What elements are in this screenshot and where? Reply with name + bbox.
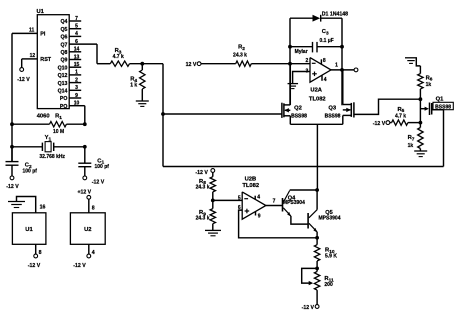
svg-text:-12 V: -12 V (6, 184, 19, 190)
svg-text:Q2: Q2 (294, 105, 302, 111)
svg-text:Q4: Q4 (60, 19, 67, 25)
svg-text:-12 V: -12 V (92, 179, 105, 185)
svg-text:Q13: Q13 (58, 81, 68, 87)
svg-text:U2B: U2B (245, 177, 257, 183)
svg-text:6: 6 (75, 39, 78, 45)
svg-text:11: 11 (29, 28, 35, 34)
svg-text:Q10: Q10 (58, 65, 68, 71)
svg-text:Q6: Q6 (60, 35, 67, 41)
svg-text:TL082: TL082 (309, 96, 326, 102)
svg-text:4: 4 (92, 250, 95, 256)
svg-text:Q9: Q9 (60, 58, 67, 64)
svg-text:100 pf: 100 pf (23, 168, 38, 174)
svg-text:PI: PI (40, 32, 46, 38)
svg-text:2: 2 (306, 58, 309, 64)
svg-text:-12 V: -12 V (73, 263, 86, 269)
svg-text:1k: 1k (408, 143, 414, 149)
svg-text:+12 V: +12 V (77, 189, 91, 195)
svg-text:14: 14 (74, 47, 80, 53)
svg-text:Mylar: Mylar (295, 49, 308, 55)
svg-text:MPS3904: MPS3904 (319, 215, 341, 221)
svg-text:-12 V: -12 V (302, 305, 315, 311)
svg-text:PO: PO (60, 96, 68, 102)
svg-text:RST: RST (40, 57, 51, 63)
svg-text:Q8: Q8 (60, 50, 67, 56)
svg-text:1: 1 (75, 70, 78, 76)
svg-text:2: 2 (75, 77, 78, 83)
svg-text:TL082: TL082 (242, 183, 259, 189)
svg-text:Q7: Q7 (60, 42, 67, 48)
svg-text:0.1 µF: 0.1 µF (319, 38, 333, 44)
svg-text:-12 V: -12 V (28, 263, 41, 269)
svg-text:5: 5 (75, 24, 78, 30)
svg-text:Q14: Q14 (58, 89, 68, 95)
svg-text:1k: 1k (426, 82, 432, 88)
svg-text:10: 10 (74, 101, 80, 107)
svg-text:Q12: Q12 (58, 73, 68, 79)
svg-text:24.3 k: 24.3 k (233, 53, 247, 59)
svg-text:1 k: 1 k (130, 83, 137, 89)
svg-text:13: 13 (74, 54, 80, 60)
svg-text:12: 12 (30, 53, 36, 59)
svg-text:U1: U1 (37, 9, 45, 15)
svg-text:7: 7 (273, 198, 276, 204)
svg-text:8: 8 (323, 58, 326, 64)
svg-text:1: 1 (335, 62, 338, 68)
svg-text:4: 4 (257, 195, 260, 201)
svg-text:15: 15 (74, 62, 80, 68)
svg-text:9: 9 (258, 214, 261, 220)
svg-text:Q5: Q5 (60, 27, 67, 33)
svg-text:10 M: 10 M (53, 129, 64, 135)
svg-text:7: 7 (75, 16, 78, 22)
svg-text:U2A: U2A (310, 88, 322, 94)
svg-text:-12 V: -12 V (373, 121, 386, 127)
svg-text:24.3 k: 24.3 k (196, 216, 210, 222)
svg-text:MPS3904: MPS3904 (283, 200, 305, 206)
svg-text:3: 3 (75, 85, 78, 91)
svg-text:BSS98: BSS98 (291, 113, 307, 119)
svg-text:24.3 k: 24.3 k (196, 184, 210, 190)
svg-text:8: 8 (92, 206, 95, 212)
svg-text:U2: U2 (84, 227, 91, 233)
svg-text:4.7 k: 4.7 k (113, 54, 124, 60)
svg-text:8: 8 (39, 250, 42, 256)
svg-text:9: 9 (75, 93, 78, 99)
svg-text:4: 4 (324, 77, 327, 83)
svg-text:-12 V: -12 V (195, 170, 208, 176)
svg-text:16: 16 (40, 205, 46, 211)
svg-text:4.7 k: 4.7 k (395, 113, 406, 119)
svg-text:4060: 4060 (37, 114, 50, 120)
svg-text:5.9 K: 5.9 K (325, 253, 337, 259)
svg-text:200: 200 (324, 282, 333, 288)
svg-text:U1: U1 (25, 227, 33, 233)
svg-text:PO: PO (60, 104, 68, 110)
svg-text:32.768 kHz: 32.768 kHz (39, 154, 65, 160)
svg-text:100 pf: 100 pf (95, 164, 110, 170)
svg-text:5: 5 (238, 195, 241, 201)
svg-text:BSS98: BSS98 (325, 113, 341, 119)
svg-text:D1 1N4148: D1 1N4148 (322, 12, 348, 18)
svg-text:12 V: 12 V (186, 62, 197, 68)
svg-text:-12 V: -12 V (17, 77, 30, 83)
svg-text:4: 4 (75, 31, 78, 37)
svg-text:Q3: Q3 (328, 105, 337, 111)
